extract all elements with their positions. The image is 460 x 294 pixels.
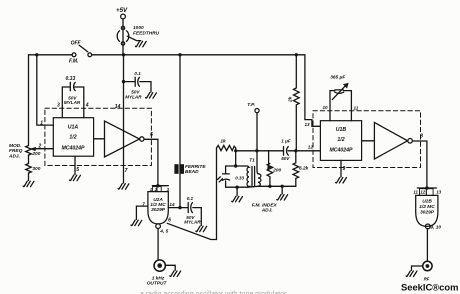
- ground (pin 7 U1A): [123, 173, 125, 184]
- svg-text:7: 7: [142, 202, 145, 207]
- ground (bottom bus): [281, 186, 283, 194]
- capacitor C6 0.33 tank + loop: [226, 166, 248, 187]
- capacitor C_feedthru 1000: [122, 19, 124, 55]
- svg-text:FEEDTHRU: FEEDTHRU: [133, 30, 160, 36]
- svg-text:0.33: 0.33: [66, 76, 76, 82]
- node: +5V feedthru junction: [122, 53, 125, 56]
- svg-text:MOD.: MOD.: [9, 143, 22, 149]
- wire + ground (pot): [28, 174, 30, 181]
- faint caption bottom: [140, 291, 287, 294]
- wire: U2A pin7 to ground: [136, 206, 148, 219]
- svg-text:T.P.: T.P.: [247, 102, 255, 108]
- svg-text:0.33: 0.33: [235, 175, 244, 180]
- capacitor C1 0.33 50V MYLAR: [62, 87, 84, 118]
- wire: wiper to pin 2 with arrow: [34, 148, 53, 150]
- svg-text:1 μF: 1 μF: [281, 139, 291, 144]
- svg-text:1: 1: [40, 121, 43, 127]
- node: bus junction to pin1 line: [35, 53, 38, 56]
- svg-text:1/2: 1/2: [337, 137, 344, 143]
- svg-text:MC4024P: MC4024P: [61, 146, 85, 152]
- terminal +5V: [121, 14, 126, 19]
- svg-text:3: 3: [167, 187, 170, 192]
- svg-text:U2B: U2B: [422, 199, 432, 205]
- connector J2 RF output: [423, 261, 432, 270]
- wire: pin 8 to U2B: [412, 141, 427, 188]
- svg-text:3: 3: [57, 102, 60, 108]
- wire: T.P. line: [255, 109, 259, 113]
- capacitor C8 365pF variable: [330, 91, 351, 121]
- wiper arrow: [268, 151, 270, 165]
- wire: pin9 ground: [340, 160, 342, 176]
- wire: U2B output to RF jack: [426, 229, 428, 261]
- ferrite bead FB1: [175, 165, 179, 174]
- svg-text:U1A: U1A: [68, 124, 79, 130]
- switch S1 OFF/F.M.: [72, 53, 76, 57]
- svg-text:6: 6: [168, 218, 171, 224]
- svg-text:11: 11: [413, 190, 418, 195]
- svg-text:1 kHz: 1 kHz: [152, 276, 165, 282]
- op-amp U1A output inverter triangle: [94, 138, 105, 140]
- node: 0.1 cap branch: [122, 80, 125, 83]
- svg-text:6: 6: [150, 132, 153, 138]
- resistor R5 6.2k: [293, 151, 299, 187]
- IC U1B dashed package box: [313, 111, 421, 168]
- svg-text:14: 14: [115, 104, 121, 110]
- wire: diagonal feed to 1k: [167, 148, 216, 240]
- svg-text:FERRITE: FERRITE: [185, 164, 206, 170]
- svg-text:12: 12: [308, 144, 314, 149]
- svg-text:U1B: U1B: [336, 127, 347, 133]
- ground (feedthru): [127, 36, 141, 40]
- svg-text:F.M.: F.M.: [69, 59, 78, 65]
- svg-text:MYLAR: MYLAR: [184, 220, 201, 225]
- svg-text:200: 200: [31, 151, 40, 157]
- svg-text:MC4024P: MC4024P: [329, 148, 353, 154]
- svg-text:FREQ: FREQ: [9, 148, 23, 154]
- svg-text:2: 2: [38, 143, 42, 149]
- svg-text:14: 14: [169, 202, 175, 207]
- svg-text:OFF: OFF: [71, 40, 82, 46]
- svg-text:5: 5: [76, 167, 79, 173]
- svg-text:8: 8: [420, 134, 423, 140]
- svg-text:0.1: 0.1: [134, 71, 141, 76]
- resistor R2 300: [26, 164, 32, 175]
- capacitor C7 1uF 50V: [283, 147, 285, 156]
- svg-text:BEAD: BEAD: [185, 169, 199, 175]
- svg-text:9: 9: [343, 166, 346, 172]
- wire: bottom bus: [248, 185, 296, 188]
- svg-text:ADJ.: ADJ.: [261, 208, 273, 214]
- IC U1A dashed package box: [45, 108, 151, 165]
- svg-text:OUTPUT: OUTPUT: [147, 281, 168, 287]
- svg-text:1/2 MC: 1/2 MC: [419, 204, 435, 210]
- resistor R6 2k: [294, 55, 300, 151]
- wire: 1k down to tank: [235, 151, 237, 166]
- svg-text:7: 7: [125, 168, 128, 174]
- connector J1 1kHz output: [154, 260, 165, 271]
- resistor R3 1k: [217, 145, 236, 150]
- svg-text:9, 10: 9, 10: [430, 224, 441, 230]
- wire: U2A pin14: [168, 207, 188, 209]
- resistor R4 200 (F.M. INDEX ADJ): [267, 164, 273, 187]
- svg-text:1k: 1k: [220, 139, 226, 145]
- svg-text:3029P: 3029P: [151, 207, 166, 213]
- gate U2A (1/2 MC3029P): [156, 184, 159, 187]
- svg-text:3029P: 3029P: [420, 210, 435, 216]
- capacitor C2 0.1 50V MYLAR: [124, 81, 136, 83]
- svg-text:1/2: 1/2: [69, 134, 76, 140]
- ground (tank): [236, 187, 238, 196]
- svg-text:SeekIC®com: SeekIC®com: [401, 281, 458, 292]
- svg-text:1/2 MC: 1/2 MC: [150, 202, 166, 208]
- wire: pin13 jog from bus: [305, 55, 321, 127]
- svg-text:300: 300: [32, 166, 40, 172]
- svg-text:0.1: 0.1: [187, 196, 194, 201]
- node: 2k branch junction: [295, 53, 298, 56]
- svg-text:T1: T1: [249, 158, 255, 164]
- svg-text:11: 11: [354, 105, 359, 110]
- resistor R1 200 (MOD FREQ ADJ pot): [26, 146, 32, 156]
- svg-text:13: 13: [305, 122, 311, 127]
- wire: pin14/7 power line: [123, 55, 125, 173]
- svg-text:4, 5: 4, 5: [159, 228, 168, 234]
- svg-text:MYLAR: MYLAR: [64, 100, 81, 105]
- gate U2B (1/2 MC3029P): [425, 186, 428, 189]
- IC U1B box: [320, 121, 361, 161]
- svg-text:6.2k: 6.2k: [299, 165, 309, 171]
- svg-text:365 μF: 365 μF: [330, 75, 346, 81]
- node: ferrite branch junction: [178, 53, 181, 56]
- wire: pin1 drop: [37, 55, 54, 125]
- op-amp U1B output inverter triangle: [362, 140, 375, 142]
- svg-text:50V: 50V: [281, 156, 290, 161]
- svg-text:13: 13: [436, 190, 441, 195]
- svg-text:1000: 1000: [133, 25, 144, 31]
- IC U1A box: [53, 118, 93, 157]
- capacitor C5 0.1 50V MYLAR: [187, 203, 189, 213]
- wire: ferrite branch: [179, 55, 181, 208]
- svg-text:F.M. INDEX: F.M. INDEX: [252, 202, 278, 208]
- svg-text:200: 200: [272, 167, 281, 173]
- wire: main +5V bus: [29, 54, 305, 56]
- transformer T1: [247, 166, 249, 187]
- wire: U2A output down to 1kHz jack: [157, 229, 159, 260]
- svg-text:2k: 2k: [288, 96, 294, 103]
- svg-text:ADJ.: ADJ.: [8, 153, 20, 159]
- svg-text:4: 4: [85, 103, 89, 109]
- svg-text:MYLAR: MYLAR: [125, 94, 142, 99]
- wire: pin5 to ground: [74, 156, 76, 174]
- svg-text:10: 10: [323, 105, 329, 110]
- wire: node line to pin 12: [236, 148, 321, 151]
- svg-text:12: 12: [420, 190, 425, 195]
- wire: pin6 to U2A input: [144, 139, 158, 185]
- wire: [28, 156, 30, 164]
- wire: left drop from bus to pot: [28, 55, 30, 146]
- svg-text:+5V: +5V: [116, 7, 128, 14]
